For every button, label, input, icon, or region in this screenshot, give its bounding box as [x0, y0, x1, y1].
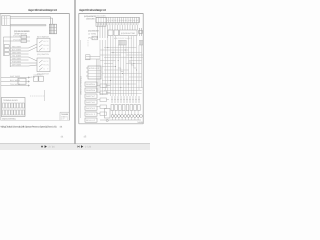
switch S2 caption	[37, 73, 50, 76]
wire row W3	[10, 51, 28, 54]
fuse block left column	[4, 45, 9, 56]
svg-text:(S1) SWITCH: (S1) SWITCH	[37, 53, 50, 56]
toolbar pager right	[78, 145, 92, 148]
left margin vertical wire	[80, 40, 82, 118]
note text	[29, 76, 36, 79]
bottom ground bus	[100, 119, 141, 121]
tick cluster A	[118, 41, 126, 46]
title block	[60, 112, 69, 120]
terminal block caption	[2, 118, 16, 121]
legend text	[84, 15, 97, 21]
sub assembly box	[105, 109, 111, 122]
svg-text:YEL WIRE: YEL WIRE	[12, 54, 22, 57]
svg-text:MODULE: MODULE	[89, 67, 100, 70]
right page heading rule	[79, 13, 144, 15]
left page bottom border	[1, 119, 70, 121]
svg-text:TM1695: TM1695	[137, 121, 143, 124]
left stack box S5	[85, 106, 97, 110]
svg-text:BLU WIRE: BLU WIRE	[10, 79, 21, 82]
left stack box S4	[85, 100, 97, 104]
left page number	[61, 136, 64, 139]
svg-text:MAIN WIRE: MAIN WIRE	[86, 18, 96, 21]
svg-text:(K1) RELAY PWR: (K1) RELAY PWR	[121, 32, 136, 35]
connector X1 (top-left block)	[2, 16, 10, 26]
right page number	[84, 136, 87, 139]
fan wires to switch A	[29, 44, 38, 51]
dotted wire	[87, 40, 89, 47]
connector X2 (hatched block)	[49, 24, 56, 34]
svg-text:(TB1) GROUND TERMINAL: (TB1) GROUND TERMINAL	[2, 118, 16, 121]
bottom toolbar	[0, 144, 150, 150]
page separator bar	[74, 0, 76, 144]
svg-text:TERMINAL BLOCK: TERMINAL BLOCK	[3, 99, 19, 102]
right title note	[137, 121, 143, 124]
component box K1	[18, 78, 26, 84]
svg-text:(C3) CONNECTOR: (C3) CONNECTOR	[88, 30, 100, 33]
svg-text:OPERATOR PRESENCE: OPERATOR PRESENCE	[80, 75, 83, 95]
short wires to module	[86, 55, 101, 60]
sub label	[88, 36, 99, 39]
wire row W2	[10, 48, 28, 51]
svg-text:GRN WIRE: GRN WIRE	[12, 57, 22, 60]
svg-text:FUSE: FUSE	[14, 38, 22, 41]
wire grid verticals	[100, 36, 142, 96]
svg-text:BLK WIRE: BLK WIRE	[12, 48, 22, 51]
lamp leads	[113, 111, 139, 121]
wire row W8	[1, 75, 30, 78]
svg-text:OF 2: OF 2	[61, 118, 68, 121]
lamp circles row	[111, 115, 142, 118]
junction dots	[107, 47, 137, 88]
svg-text:2 / 24: 2 / 24	[49, 145, 56, 148]
left stack box S6	[85, 112, 97, 116]
connector ends	[28, 77, 30, 87]
svg-text:GRY WIRE: GRY WIRE	[12, 63, 22, 66]
svg-text:PUR WIRE: PUR WIRE	[12, 60, 22, 63]
switch S1 label	[37, 35, 50, 38]
switch S1 caption	[37, 53, 50, 56]
right page left border	[78, 14, 80, 124]
svg-text:WHT WIRE: WHT WIRE	[10, 75, 21, 78]
svg-text:NOTE: NOTE	[29, 76, 36, 79]
svg-text:Diagram Information and Arrang: Diagram Information and Arrangement	[28, 8, 57, 12]
stair wires	[118, 62, 136, 72]
switch row boxes	[111, 105, 140, 111]
contact dots	[112, 99, 140, 100]
right page heading	[79, 8, 106, 12]
svg-text:RED WIRE: RED WIRE	[12, 45, 22, 48]
wire row W5	[10, 57, 28, 60]
legend row 2	[88, 30, 100, 36]
wire row W1	[10, 45, 28, 48]
relay row box X3	[108, 30, 137, 36]
left stack box S3	[85, 94, 97, 98]
svg-text:Wiring Electrical Schematic (W: Wiring Electrical Schematic (With Operat…	[1, 125, 57, 128]
svg-text:SWITCH E: SWITCH E	[86, 107, 96, 110]
svg-text:(F2) FUSE: (F2) FUSE	[88, 36, 99, 39]
diode D1	[139, 28, 143, 36]
svg-text:SWITCH C: SWITCH C	[86, 95, 96, 98]
svg-text:(W1) HARNESS: (W1) HARNESS	[84, 15, 97, 18]
toolbar pager left	[41, 145, 55, 148]
wire top bundle	[10, 17, 52, 25]
left page heading	[28, 8, 57, 12]
module box M1	[86, 66, 101, 79]
stack side boxes	[100, 84, 107, 115]
wire row W9	[1, 79, 30, 82]
wire pair vertical	[97, 59, 99, 92]
comb ticks	[98, 23, 139, 25]
fuse F1 row	[3, 34, 30, 38]
wire lower pair	[10, 25, 46, 26]
dashed link	[30, 90, 45, 101]
terminal block TB1	[1, 98, 25, 117]
svg-text:SENSOR A: SENSOR A	[86, 83, 96, 86]
wire row W7	[10, 63, 28, 66]
left stack box S7	[85, 118, 97, 122]
svg-text:12 TERM: 12 TERM	[88, 32, 96, 35]
left caption	[1, 125, 63, 128]
wire bus vertical	[9, 26, 11, 67]
svg-text:SENSOR B: SENSOR B	[86, 89, 96, 92]
svg-text:Diagram Information and Arrang: Diagram Information and Arrangement	[79, 8, 106, 12]
fuse F2 row	[3, 38, 30, 42]
component box F2	[92, 36, 97, 40]
contact row	[112, 96, 139, 103]
tick cluster B	[139, 41, 143, 46]
left page heading rule	[0, 13, 70, 15]
svg-text:RELAY G: RELAY G	[86, 119, 96, 122]
pin text row	[114, 37, 133, 40]
svg-text:ORG WIRE: ORG WIRE	[12, 51, 22, 54]
svg-text:1 2 3 4 5 6 7 8 9 10 11 12 13: 1 2 3 4 5 6 7 8 9 10 11 12 13 14 15	[107, 19, 138, 22]
svg-text:CONN PAIR: CONN PAIR	[34, 73, 44, 76]
wire row W6	[10, 60, 28, 63]
vertical drops from comb	[98, 25, 138, 38]
left stack box S1	[85, 82, 97, 86]
wire row W10	[1, 83, 30, 86]
svg-text:RUN: RUN	[44, 44, 50, 47]
svg-text:RELAY F: RELAY F	[86, 113, 96, 116]
right page bottom border	[79, 123, 143, 125]
fan wires to switch B	[29, 57, 38, 66]
stack connect wires	[97, 86, 110, 114]
svg-text:A B C D E F G H J K: A B C D E F G H J K	[114, 37, 133, 40]
switch S2 box	[37, 58, 50, 72]
wire grid horizontals	[100, 48, 143, 94]
bus stub left	[2, 37, 4, 56]
left page right border	[68, 14, 70, 121]
margin vertical label	[80, 75, 83, 95]
left stack box S2	[85, 88, 97, 92]
wire row W4	[10, 54, 28, 57]
switch S1 box	[37, 38, 50, 52]
svg-text:RUN: RUN	[44, 64, 50, 67]
connector pair C2	[34, 73, 44, 81]
connector comb strip	[96, 15, 140, 23]
left page left edge	[0, 14, 2, 121]
svg-text:2 / 24: 2 / 24	[85, 145, 92, 148]
svg-text:FUSE: FUSE	[14, 34, 22, 37]
relay block R1	[96, 17, 106, 26]
right page right border	[142, 14, 144, 124]
label text block	[14, 30, 31, 35]
svg-text:SWITCH D: SWITCH D	[86, 101, 96, 104]
